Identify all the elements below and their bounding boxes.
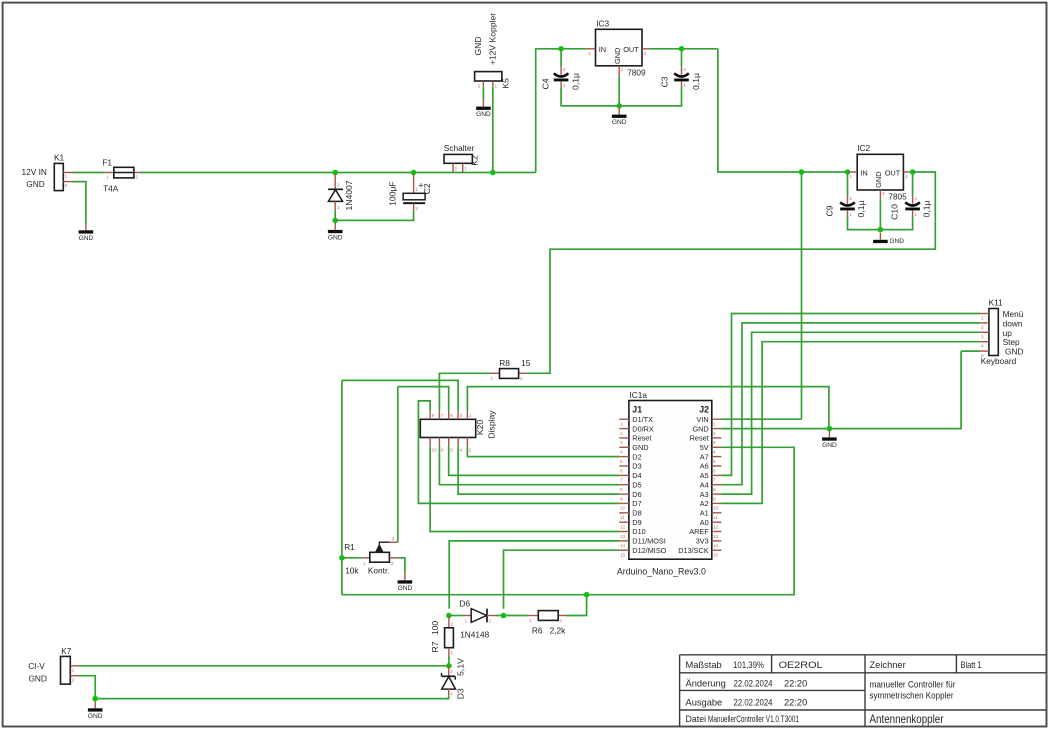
junction IC3 GND / C4 C3 return bbox=[616, 103, 622, 109]
svg-text:Arduino_Nano_Rev3.0: Arduino_Nano_Rev3.0 bbox=[617, 566, 706, 576]
svg-text:F1: F1 bbox=[102, 158, 112, 168]
svg-text:1N4007: 1N4007 bbox=[344, 180, 354, 210]
svg-text:22:20: 22:20 bbox=[784, 679, 807, 689]
svg-text:Blatt 1: Blatt 1 bbox=[961, 660, 982, 670]
svg-text:1: 1 bbox=[464, 166, 467, 171]
svg-text:2: 2 bbox=[72, 677, 75, 682]
svg-text:D11/MOSI: D11/MOSI bbox=[632, 537, 666, 546]
wire K20 pin3 left bbox=[342, 380, 458, 410]
wire K1 pin2 to ground bbox=[72, 182, 86, 224]
wire IC3 OUT to riser bbox=[649, 48, 718, 50]
wire D3 anode to K7 GND line bbox=[95, 696, 449, 699]
svg-text:R8: R8 bbox=[499, 358, 510, 368]
svg-text:GND: GND bbox=[874, 171, 883, 187]
svg-text:GND: GND bbox=[88, 713, 103, 720]
junction IC3 OUT / C3 bbox=[679, 46, 685, 52]
svg-text:1: 1 bbox=[683, 83, 686, 88]
junction IC2 GND / C9 C10 return bbox=[878, 227, 884, 233]
wire contrast riser to R1 wiper bbox=[397, 387, 399, 543]
pin J1.7 D4 bbox=[619, 471, 641, 483]
svg-text:GND: GND bbox=[473, 36, 483, 55]
svg-text:IN: IN bbox=[860, 168, 867, 177]
svg-text:GND: GND bbox=[28, 674, 46, 684]
svg-text:D1/TX: D1/TX bbox=[632, 415, 653, 424]
svg-text:12: 12 bbox=[713, 525, 719, 530]
wire K20 pin10 to D10 bbox=[430, 446, 619, 531]
svg-text:OUT: OUT bbox=[623, 45, 639, 54]
svg-text:Keyboard: Keyboard bbox=[981, 356, 1017, 366]
svg-text:2: 2 bbox=[914, 196, 917, 201]
zener diode D3 5,1V bbox=[442, 667, 456, 696]
svg-text:GND: GND bbox=[476, 111, 491, 118]
svg-text:3: 3 bbox=[713, 440, 716, 445]
svg-text:100µF: 100µF bbox=[388, 181, 398, 206]
svg-text:15: 15 bbox=[620, 553, 626, 558]
svg-text:Antennenkoppler: Antennenkoppler bbox=[870, 712, 944, 726]
svg-text:+12V Koppler: +12V Koppler bbox=[487, 13, 497, 65]
svg-text:2: 2 bbox=[135, 175, 138, 180]
wire up to A3 bbox=[721, 332, 979, 494]
svg-text:2: 2 bbox=[451, 621, 454, 626]
svg-text:7809: 7809 bbox=[627, 68, 646, 78]
svg-text:C4: C4 bbox=[540, 78, 550, 89]
svg-text:2: 2 bbox=[981, 325, 984, 330]
wire K20 pin5 to contrast bbox=[398, 387, 449, 411]
wire R6 to D6 cathode node bbox=[504, 615, 528, 617]
svg-text:5V: 5V bbox=[700, 443, 709, 452]
wire C3 top bbox=[681, 49, 683, 67]
svg-text:R1: R1 bbox=[344, 542, 355, 552]
svg-text:101,39%: 101,39% bbox=[733, 660, 764, 670]
pin J1.5 D2 bbox=[619, 452, 641, 464]
svg-text:A2: A2 bbox=[700, 499, 709, 508]
svg-text:K20: K20 bbox=[475, 420, 485, 436]
wire D12/MISO to D6 cathode bbox=[504, 550, 620, 609]
wire 5V row and bottom 5V rail bbox=[342, 447, 794, 594]
svg-text:9: 9 bbox=[713, 496, 716, 501]
pin J2.14 3V3 bbox=[696, 537, 722, 549]
svg-text:Reset: Reset bbox=[632, 434, 651, 443]
junction K7 ground node bbox=[92, 696, 98, 702]
svg-text:4: 4 bbox=[620, 450, 623, 455]
svg-text:5: 5 bbox=[450, 413, 453, 418]
svg-text:8: 8 bbox=[441, 448, 444, 453]
wire K20 pin8 to D5 bbox=[439, 446, 619, 485]
svg-text:C2: C2 bbox=[422, 183, 432, 194]
svg-text:D0/RX: D0/RX bbox=[632, 424, 654, 433]
wire K5 pin2 to ground bbox=[482, 87, 484, 100]
svg-text:A1: A1 bbox=[700, 509, 709, 518]
svg-text:14: 14 bbox=[713, 543, 719, 548]
svg-text:C10: C10 bbox=[890, 204, 900, 220]
svg-text:D6: D6 bbox=[632, 490, 641, 499]
main 12V rail from F1 to 7809 riser bbox=[140, 172, 536, 174]
svg-text:2: 2 bbox=[455, 166, 458, 171]
svg-text:10: 10 bbox=[432, 448, 438, 453]
svg-text:1: 1 bbox=[713, 422, 716, 427]
pin J1.1 D1/TX bbox=[619, 415, 653, 427]
pin J1.9 D6 bbox=[619, 490, 641, 502]
wire 5V from IC2 OUT to R8 bbox=[527, 172, 936, 373]
junction R1 pin1 node bbox=[339, 555, 345, 561]
svg-text:10k: 10k bbox=[345, 566, 359, 576]
svg-text:A5: A5 bbox=[700, 471, 709, 480]
switch connector K2 Schalter bbox=[444, 154, 472, 172]
potentiometer R1 Kontr. bbox=[342, 536, 398, 566]
pin J1.14 D11/MOSI bbox=[619, 537, 666, 549]
wire CI-V to R7/D3 node bbox=[79, 665, 449, 667]
wire C4 top bbox=[560, 49, 562, 67]
junction rail / D-1N4007 bbox=[332, 170, 338, 176]
svg-text:1: 1 bbox=[469, 413, 472, 418]
ground under K7 bbox=[88, 701, 103, 720]
svg-text:CI-V: CI-V bbox=[28, 661, 45, 671]
wire R8 to K20 pin7 bbox=[439, 373, 489, 410]
svg-text:GND: GND bbox=[692, 424, 708, 433]
svg-text:K2: K2 bbox=[470, 155, 480, 166]
ground under K1 bbox=[79, 223, 94, 242]
capacitor C10 0,1µ bbox=[905, 196, 920, 217]
wire Step to A2 bbox=[721, 342, 979, 504]
svg-text:11: 11 bbox=[713, 515, 718, 520]
svg-text:OUT: OUT bbox=[885, 168, 901, 177]
svg-text:1: 1 bbox=[337, 205, 340, 210]
svg-text:11: 11 bbox=[620, 515, 625, 520]
svg-text:1: 1 bbox=[588, 51, 591, 56]
voltage regulator IC3 7809 bbox=[586, 29, 649, 76]
svg-text:1: 1 bbox=[981, 316, 984, 321]
pin J2.4 5V bbox=[700, 443, 722, 455]
svg-text:D3: D3 bbox=[632, 462, 641, 471]
fuse F1 bbox=[105, 167, 140, 179]
junction IC3 IN / C4 bbox=[558, 46, 564, 52]
svg-text:3: 3 bbox=[620, 440, 623, 445]
resistor R6 bbox=[528, 611, 566, 623]
pin J2.15 D13/SCK bbox=[678, 546, 721, 558]
svg-text:Display: Display bbox=[486, 410, 496, 439]
pin J1.10 D7 bbox=[619, 499, 641, 511]
svg-text:OE2ROL: OE2ROL bbox=[779, 660, 823, 670]
wire C3 bottom to ground node bbox=[619, 87, 681, 106]
connector K5 bbox=[475, 72, 502, 89]
svg-text:A0: A0 bbox=[700, 518, 709, 527]
pin J2.8 A4 bbox=[700, 480, 722, 492]
title block bbox=[680, 655, 1047, 727]
svg-text:2: 2 bbox=[621, 67, 624, 72]
svg-text:2: 2 bbox=[337, 182, 340, 187]
svg-text:2: 2 bbox=[415, 206, 418, 211]
svg-text:K11: K11 bbox=[989, 298, 1004, 308]
svg-text:K5: K5 bbox=[501, 78, 511, 89]
svg-text:Kontr.: Kontr. bbox=[368, 566, 390, 576]
svg-text:1: 1 bbox=[914, 212, 917, 217]
pin J1.6 D3 bbox=[619, 462, 641, 474]
junction diode anode / C2 bottom / GND bbox=[332, 218, 338, 224]
svg-text:2: 2 bbox=[559, 618, 562, 623]
svg-text:D12/MISO: D12/MISO bbox=[632, 546, 666, 555]
wire diode anode down bbox=[334, 210, 336, 220]
svg-text:C3: C3 bbox=[659, 76, 669, 87]
pin J2.11 A1 bbox=[700, 509, 722, 521]
svg-text:D4: D4 bbox=[632, 471, 641, 480]
svg-text:1: 1 bbox=[491, 376, 494, 381]
wire VIN riser bbox=[801, 172, 803, 419]
ground under K5 bbox=[476, 100, 491, 119]
svg-text:C9: C9 bbox=[824, 205, 834, 216]
svg-text:9: 9 bbox=[432, 413, 435, 418]
junction IC2 OUT / C10 bbox=[910, 169, 916, 175]
svg-text:4: 4 bbox=[460, 448, 463, 453]
ground under 1N4007 bbox=[328, 223, 343, 242]
svg-text:1: 1 bbox=[495, 84, 498, 89]
wire C4 bottom to ground node bbox=[561, 87, 619, 106]
pin J1.11 D8 bbox=[619, 509, 641, 521]
svg-text:J2: J2 bbox=[699, 405, 709, 415]
wire 9V riser down to IC2 IN bbox=[718, 49, 848, 172]
svg-text:3: 3 bbox=[460, 413, 463, 418]
wire K1 pin1 to fuse F1 bbox=[72, 172, 105, 174]
svg-text:GND: GND bbox=[612, 119, 627, 126]
pin J1.8 D5 bbox=[619, 480, 641, 492]
svg-text:7: 7 bbox=[713, 478, 716, 483]
svg-text:IC3: IC3 bbox=[596, 19, 609, 29]
diode D6 1N4148 bbox=[449, 609, 504, 624]
wire GND to keyboard bbox=[829, 351, 961, 429]
svg-text:12V IN: 12V IN bbox=[22, 167, 47, 177]
ground main bbox=[822, 430, 837, 449]
svg-text:GND: GND bbox=[889, 238, 904, 245]
svg-text:2: 2 bbox=[683, 67, 686, 72]
wire C10 top bbox=[912, 172, 914, 196]
svg-text:7: 7 bbox=[441, 413, 444, 418]
svg-text:2: 2 bbox=[65, 183, 68, 188]
svg-text:1: 1 bbox=[620, 422, 623, 427]
svg-text:D7: D7 bbox=[632, 499, 641, 508]
svg-text:A3: A3 bbox=[700, 490, 709, 499]
svg-text:D8: D8 bbox=[632, 509, 641, 518]
wire K20 pin9 to D7 bbox=[418, 401, 619, 504]
resistor R8 bbox=[489, 369, 526, 381]
pin J2.3 Reset bbox=[690, 434, 722, 446]
svg-text:1: 1 bbox=[850, 174, 853, 179]
svg-text:2: 2 bbox=[469, 448, 472, 453]
svg-text:1: 1 bbox=[450, 691, 453, 696]
junction GND node bbox=[827, 426, 833, 432]
svg-text:GND: GND bbox=[632, 443, 648, 452]
connector K7 bbox=[61, 656, 80, 684]
svg-text:3V3: 3V3 bbox=[696, 537, 709, 546]
svg-text:4: 4 bbox=[713, 450, 716, 455]
wire R6 pin2 to 5V rail bbox=[566, 595, 587, 616]
svg-text:ManuellerController V1.0.T3001: ManuellerController V1.0.T3001 bbox=[708, 714, 799, 724]
svg-text:13: 13 bbox=[620, 534, 626, 539]
svg-text:22.02.2024: 22.02.2024 bbox=[734, 679, 773, 689]
svg-text:8: 8 bbox=[713, 487, 716, 492]
wire rail up to IC3 IN bbox=[536, 49, 587, 173]
svg-text:3: 3 bbox=[981, 334, 984, 339]
svg-text:22:20: 22:20 bbox=[784, 697, 807, 707]
svg-text:GND: GND bbox=[328, 235, 343, 242]
svg-text:D2: D2 bbox=[632, 452, 641, 461]
pin J2.9 A3 bbox=[700, 490, 722, 502]
svg-text:Datei: Datei bbox=[686, 714, 707, 724]
svg-text:T4A: T4A bbox=[103, 183, 119, 193]
wire 5V left riser bbox=[341, 380, 343, 594]
svg-text:D5: D5 bbox=[632, 480, 641, 489]
svg-text:D13/SCK: D13/SCK bbox=[678, 546, 709, 555]
junction 5V rail / R6 bbox=[584, 592, 590, 598]
svg-text:2: 2 bbox=[489, 618, 492, 623]
pin J1.13 D10 bbox=[619, 527, 645, 539]
pin J1.2 D0/RX bbox=[619, 424, 654, 436]
svg-text:1: 1 bbox=[72, 668, 75, 673]
pin J1.15 D12/MISO bbox=[619, 546, 666, 558]
svg-text:1: 1 bbox=[106, 175, 109, 180]
wire D11/MOSI to D6 anode bbox=[449, 541, 619, 609]
svg-text:7: 7 bbox=[620, 478, 623, 483]
svg-text:2: 2 bbox=[563, 67, 566, 72]
svg-text:3: 3 bbox=[392, 536, 395, 541]
wire K20 pin1 GND line bbox=[467, 387, 829, 429]
svg-text:2: 2 bbox=[520, 376, 523, 381]
svg-text:J1: J1 bbox=[632, 405, 642, 415]
junction 9V rail / VIN branch bbox=[799, 169, 805, 175]
svg-text:100: 100 bbox=[430, 621, 440, 636]
wire IC2 GND down bbox=[879, 200, 881, 230]
svg-text:13: 13 bbox=[713, 534, 719, 539]
ground under IC3 bbox=[612, 108, 627, 127]
svg-text:15: 15 bbox=[521, 358, 531, 368]
svg-text:1: 1 bbox=[849, 212, 852, 217]
svg-text:0,1µ: 0,1µ bbox=[691, 73, 701, 90]
pin J2.7 A5 bbox=[700, 471, 722, 483]
svg-text:2: 2 bbox=[849, 196, 852, 201]
pin J1.3 Reset bbox=[619, 434, 651, 446]
svg-text:GND: GND bbox=[613, 48, 622, 64]
svg-text:5: 5 bbox=[620, 459, 623, 464]
svg-text:GND: GND bbox=[26, 179, 44, 189]
svg-text:1: 1 bbox=[451, 650, 454, 655]
svg-text:5,1V: 5,1V bbox=[455, 658, 465, 676]
pin J2.13 AREF bbox=[689, 527, 721, 539]
wire bottom of C2 bbox=[335, 210, 413, 220]
pin J2.2 GND bbox=[692, 424, 721, 436]
diode 1N4007 bbox=[328, 174, 343, 211]
svg-text:4: 4 bbox=[981, 344, 984, 349]
svg-text:R6: R6 bbox=[532, 625, 543, 635]
svg-text:Zeichner: Zeichner bbox=[870, 660, 906, 670]
svg-text:9: 9 bbox=[620, 496, 623, 501]
wire GND row bbox=[721, 428, 829, 430]
wire IC3 GND down bbox=[618, 76, 620, 106]
svg-text:D3: D3 bbox=[455, 688, 465, 699]
junction D6 cathode node bbox=[501, 613, 507, 619]
svg-text:14: 14 bbox=[620, 543, 626, 548]
svg-text:A6: A6 bbox=[700, 462, 709, 471]
pin J2.10 A2 bbox=[700, 499, 722, 511]
connector K11 Keyboard bbox=[980, 309, 999, 359]
svg-text:6: 6 bbox=[450, 448, 453, 453]
svg-text:6: 6 bbox=[713, 468, 716, 473]
svg-text:6: 6 bbox=[620, 468, 623, 473]
capacitor C2 100µF bbox=[403, 174, 425, 211]
svg-text:10: 10 bbox=[620, 506, 626, 511]
svg-text:3: 3 bbox=[644, 51, 647, 56]
wire K20 pin6 to D4 bbox=[449, 446, 620, 475]
svg-text:2: 2 bbox=[713, 431, 716, 436]
svg-text:7805: 7805 bbox=[888, 192, 907, 202]
junction D6 anode node bbox=[446, 613, 452, 619]
pin J2.6 A6 bbox=[700, 462, 722, 474]
svg-text:0,1µ: 0,1µ bbox=[921, 201, 931, 218]
wire R7 to D3 node bbox=[448, 656, 450, 666]
svg-text:AREF: AREF bbox=[689, 527, 709, 536]
svg-text:1: 1 bbox=[465, 618, 468, 623]
pin J2.5 A7 bbox=[700, 452, 722, 464]
svg-text:3: 3 bbox=[905, 174, 908, 179]
svg-text:GND: GND bbox=[398, 585, 413, 592]
wire VIN row bbox=[721, 418, 801, 420]
svg-text:5: 5 bbox=[713, 459, 716, 464]
svg-text:Ausgabe: Ausgabe bbox=[686, 697, 723, 707]
svg-text:0,1µ: 0,1µ bbox=[856, 201, 866, 218]
svg-text:0,1µ: 0,1µ bbox=[570, 73, 580, 90]
wire K20 pin2 to D2 bbox=[467, 446, 619, 456]
svg-text:2: 2 bbox=[450, 669, 453, 674]
svg-text:symmetrischen Koppler: symmetrischen Koppler bbox=[870, 690, 954, 700]
junction R7 / D3 / CI-V node bbox=[446, 663, 452, 669]
pin J1.4 GND bbox=[619, 443, 648, 455]
capacitor C9 0,1µ bbox=[840, 196, 855, 217]
svg-text:Schalter: Schalter bbox=[444, 143, 475, 153]
svg-text:1: 1 bbox=[65, 174, 68, 179]
pin J2.1 VIN bbox=[697, 415, 722, 427]
ground under R1 bbox=[398, 573, 413, 592]
wire keyboard GND stub bbox=[961, 350, 979, 352]
wire down to A4 bbox=[721, 323, 979, 485]
svg-text:D10: D10 bbox=[632, 527, 645, 536]
svg-text:GND: GND bbox=[79, 235, 94, 242]
svg-text:8: 8 bbox=[620, 487, 623, 492]
pin J2.12 A0 bbox=[700, 518, 722, 530]
svg-text:1: 1 bbox=[529, 618, 532, 623]
pin J1.12 D9 bbox=[619, 518, 641, 530]
wire R1 pin2 to ground bbox=[398, 558, 405, 574]
connector K1 bbox=[54, 163, 72, 190]
svg-text:IC1a: IC1a bbox=[630, 390, 648, 400]
svg-text:K1: K1 bbox=[54, 152, 65, 162]
wire C9 top bbox=[847, 172, 849, 196]
svg-text:2: 2 bbox=[478, 84, 481, 89]
svg-text:GND: GND bbox=[822, 442, 837, 449]
svg-text:1N4148: 1N4148 bbox=[460, 629, 489, 639]
capacitor C4 0,1µ bbox=[554, 67, 569, 88]
svg-text:2: 2 bbox=[391, 561, 394, 566]
Arduino module IC1a bbox=[629, 401, 712, 560]
junction rail / K5 riser bbox=[490, 170, 496, 176]
svg-text:VIN: VIN bbox=[697, 415, 709, 424]
svg-text:2: 2 bbox=[882, 191, 885, 196]
wire K20 pin4 to D6 bbox=[458, 446, 619, 494]
svg-text:A7: A7 bbox=[700, 452, 709, 461]
svg-text:IC2: IC2 bbox=[857, 143, 870, 153]
svg-text:2,2k: 2,2k bbox=[550, 625, 567, 635]
wire K5 pin1 down to rail bbox=[492, 87, 494, 173]
svg-text:10: 10 bbox=[713, 506, 719, 511]
svg-text:manueller Controller für: manueller Controller für bbox=[870, 679, 956, 689]
connector K20 Display bbox=[420, 411, 475, 453]
svg-text:2: 2 bbox=[620, 431, 623, 436]
